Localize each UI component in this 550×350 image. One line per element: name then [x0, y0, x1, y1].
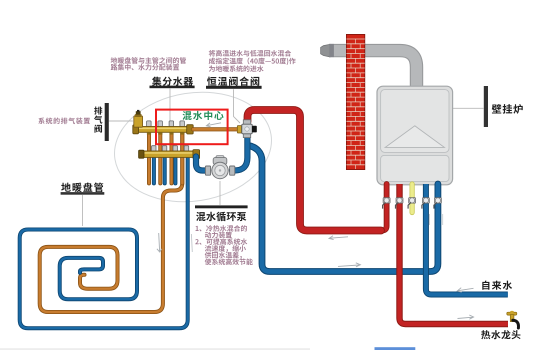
- pump loop: valve -> pump (blue): [232, 133, 247, 171]
- coil label underline: [61, 192, 105, 195]
- supply manifold left fitting: [133, 125, 139, 134]
- boiler label bar: [484, 86, 488, 127]
- domestic hot water pipe (red): [400, 184, 509, 324]
- tap water flow arrow: [457, 288, 473, 292]
- upper manifold valve caps: [147, 121, 152, 127]
- leader line: pump label: [219, 181, 221, 205]
- boiler emblem triangle: [385, 126, 444, 148]
- flow arrow on red supply bottom run: [329, 236, 348, 240]
- wall-hung boiler U1 body: [377, 86, 453, 185]
- boiler flue pipe: [329, 51, 417, 90]
- flow arrow on blue coil return: [190, 234, 193, 252]
- brick chimney: [346, 34, 364, 169]
- leader line: floor coil label: [82, 195, 84, 226]
- air vent valve: [134, 116, 143, 127]
- mixing-center return line: valve tee -> boiler return port (blue): [248, 146, 438, 272]
- flow arrow on return line: [338, 263, 360, 267]
- leader line: air vent label: [109, 120, 133, 122]
- mixed water supply pipe manifold->valve (orange): [193, 127, 240, 131]
- supply manifold right fitting: [187, 125, 194, 134]
- faint bottom edge band: [0, 348, 310, 350]
- floor heating coil: blue return spiral: [20, 157, 188, 328]
- red highlight box (mixing center): [156, 110, 228, 145]
- supply manifold bar: [137, 127, 193, 133]
- air vent label bar: [105, 103, 109, 141]
- flow arrow on orange coil feed: [157, 233, 162, 252]
- boiler port isolation valves: [383, 198, 391, 209]
- manifold loop drop pipes (blue return): [152, 156, 156, 183]
- small arrows near boiler ports: [429, 214, 442, 225]
- bottom watermark bar: [375, 347, 416, 350]
- return manifold right fitting: [193, 150, 200, 159]
- thermostatic mixing valve V1: [243, 120, 250, 125]
- heating supply pipe boiler->valve (red): [379, 184, 387, 231]
- manifold loop drop pipes (orange supply): [147, 131, 151, 183]
- flow arrow on mixed supply: [206, 123, 221, 127]
- flue end nozzle: [321, 44, 330, 57]
- manifold label underline: [150, 86, 195, 89]
- leader line: boiler label: [449, 107, 484, 109]
- mixing circulation pump P1: [216, 156, 224, 159]
- leader line: thermostatic valve label: [234, 89, 241, 123]
- text labels: [111, 57, 186, 64]
- floor heating coil: orange supply spiral: [40, 131, 183, 312]
- gas pipe (yellow): [410, 184, 415, 213]
- cold water inlet pipe + tap water line (blue): [426, 184, 508, 295]
- valve label underline: [206, 86, 262, 89]
- return manifold left end cap: [139, 150, 144, 158]
- brass nut at valve inlet: [237, 126, 241, 133]
- pump loop: manifold -> pump (blue): [196, 157, 208, 171]
- drop connection nuts: [147, 132, 151, 134]
- pump label overline: [195, 205, 248, 208]
- leader line: manifold label: [169, 89, 171, 127]
- faucet (hot water tap): [507, 312, 517, 315]
- return manifold bar: [141, 151, 200, 157]
- hot water flow arrow: [458, 315, 474, 319]
- lower manifold valve caps: [152, 146, 157, 152]
- background ellipse around mixing center: [107, 81, 280, 212]
